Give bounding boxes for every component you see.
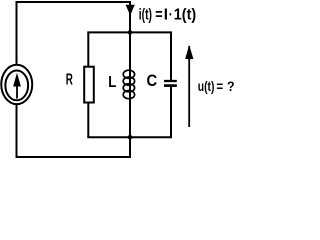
resistor R	[84, 67, 94, 103]
wire left branch upper	[16, 2, 18, 65]
wire R branch top	[87, 32, 89, 67]
node top junction	[128, 30, 133, 35]
svg-text:C: C	[147, 72, 158, 90]
wire C branch top	[170, 32, 172, 80]
inductor L coil	[123, 70, 134, 98]
wire top feed from source to node	[17, 1, 131, 32]
bottom rail	[87, 136, 172, 138]
voltage arrow u(t)	[188, 46, 190, 127]
current source I1 outer ellipse	[1, 65, 32, 104]
wire C branch bottom	[170, 87, 172, 137]
node bottom junction	[128, 135, 133, 140]
current source arrow	[16, 86, 18, 99]
svg-text:i(t)=I·1(t): i(t)=I·1(t)	[139, 6, 196, 23]
wire R branch bottom	[87, 103, 89, 138]
svg-text:R: R	[66, 70, 74, 88]
svg-text:u(t)=?: u(t)=?	[198, 79, 235, 94]
wire L branch top	[129, 32, 131, 157]
current source I1 inner ellipse	[5, 71, 28, 101]
wire left branch lower	[17, 104, 131, 157]
top rail	[87, 31, 172, 33]
svg-text:L: L	[108, 74, 116, 91]
capacitor C plates	[164, 80, 177, 82]
arrow current direction down	[126, 5, 135, 16]
